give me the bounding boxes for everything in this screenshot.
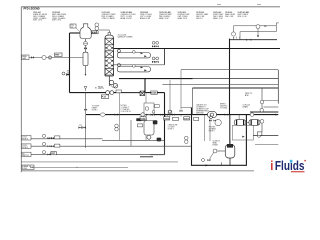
svg-text:NOTE 3: NOTE 3 — [168, 128, 174, 130]
node tag box 172.5 — [173, 117, 179, 120]
node notes box — [120, 93, 147, 141]
node E105b tag — [116, 90, 121, 93]
vessel small drum B — [249, 120, 260, 126]
wire stream2 — [31, 145, 191, 147]
stream row 1 — [22, 134, 103, 140]
svg-text:3. SLOPE 1%: 3. SLOPE 1% — [121, 111, 132, 113]
svg-text:PFD LEGEND: PFD LEGEND — [24, 8, 40, 11]
wire feed line — [29, 57, 83, 59]
wire stream4 — [34, 166, 128, 168]
valve drum drain — [208, 159, 211, 161]
node arrow on U-loop — [206, 164, 209, 166]
border zone ticks — [217, 4, 261, 6]
node NC note — [79, 124, 82, 126]
node tick marks on header x232-238 — [233, 37, 240, 39]
svg-text:HEAD: 35 M: HEAD: 35 M — [159, 17, 169, 20]
svg-text:OPER: 0.2 BARG: OPER: 0.2 BARG — [102, 17, 116, 20]
wire main vertical header x229.5 — [229, 39, 231, 115]
svg-text:PET: PET — [55, 55, 60, 57]
node title strip divider — [21, 161, 178, 163]
valve stream3 — [48, 153, 51, 155]
pump 12-PU-001A — [109, 80, 113, 84]
svg-text:DRUM: DRUM — [213, 145, 219, 147]
valve on vertical x181 — [180, 70, 182, 117]
node E105 tag box — [151, 91, 158, 94]
svg-text:SERVICE: SERVICE — [196, 113, 204, 115]
svg-text:QUENCH TOWER: QUENCH TOWER — [118, 36, 134, 38]
wire flask bottom outlet — [85, 39, 87, 53]
node vent arrow — [265, 25, 268, 27]
node tag box right — [257, 132, 262, 135]
wire drum left outlet — [217, 150, 225, 152]
node dosing pot tag (dark) — [136, 118, 141, 121]
valve group upper (motor valves) — [152, 41, 159, 47]
logo registered mark — [304, 160, 305, 161]
vessel 12-FI-001 slim filter — [83, 52, 88, 65]
valve stream1 — [48, 137, 51, 139]
svg-text:WTR R: WTR R — [22, 147, 29, 149]
node stream3 PET tag — [51, 152, 57, 155]
valve feed isolation — [31, 56, 34, 58]
valve cluster dark on header — [79, 126, 86, 129]
svg-text:AREA: 120 M2: AREA: 120 M2 — [121, 17, 132, 20]
node distributor C2 — [106, 59, 113, 63]
svg-text:101: 101 — [71, 27, 74, 29]
svg-text:CHEM DOSE: CHEM DOSE — [168, 124, 178, 126]
valve + circle x153.5 — [152, 114, 155, 116]
node tag box under line 1 — [140, 117, 146, 120]
node psv cluster — [209, 116, 221, 125]
node arrows product line — [146, 114, 153, 116]
equipment label blocks along top — [33, 11, 249, 22]
wire quench return riser — [164, 93, 166, 155]
node feed gas label box — [22, 55, 30, 60]
svg-text:ATM: ATM — [245, 94, 249, 97]
wire psv cluster stubs — [205, 115, 211, 141]
valve symbol small circle — [115, 124, 119, 128]
wire stub y112 — [250, 111, 278, 113]
exchanger 12-EX-002 hairpin lower — [117, 64, 150, 72]
packing X bed 2 — [105, 51, 114, 58]
vessel seal drum capsule — [225, 145, 235, 159]
instrument PSV vent — [256, 25, 260, 29]
wire overhead loop: vertical left riser — [69, 33, 71, 93]
instrument LI on riser — [168, 110, 172, 114]
wire drum bottom to U-loop — [229, 158, 231, 165]
node stream4 label box — [22, 165, 34, 170]
valve on drain header — [84, 109, 87, 111]
wire pumparound riser — [164, 49, 166, 65]
wire drums stubs — [239, 115, 249, 123]
instrument FT feed — [48, 56, 51, 59]
svg-text:DES: FV: DES: FV — [196, 18, 203, 20]
wire vent header y26 — [234, 26, 277, 32]
instrument circle above product line right — [260, 108, 264, 112]
instrument pair near drain riser — [185, 136, 189, 140]
valve diamond x142.7 — [140, 112, 145, 117]
wire spent caustic line y135.5 — [253, 135, 278, 137]
valve pair on product line — [165, 114, 168, 116]
node utility box verticals — [193, 88, 263, 115]
instrument on product line — [250, 113, 254, 117]
wire utility y84.6 — [162, 84, 278, 86]
instrument circle left of vessel cluster — [202, 159, 205, 162]
node text above product line — [220, 93, 253, 110]
svg-text:HEAD: 20 M: HEAD: 20 M — [178, 17, 188, 20]
svg-text:NOTE 2: NOTE 2 — [92, 110, 98, 112]
node tag box under line 2 — [164, 117, 170, 120]
instrument TI hairpin 1 — [132, 50, 135, 53]
node dark blob 2 — [157, 138, 162, 142]
valve group lower (motor valves) — [152, 57, 159, 63]
node psv note text — [209, 127, 217, 133]
pump inline 12-PU-03 — [208, 112, 217, 118]
wire drain U-loop — [192, 108, 247, 166]
wire stream1 — [31, 138, 103, 140]
svg-text:NOTE 4: NOTE 4 — [209, 130, 215, 132]
exchanger 12-EX-001 hairpin upper — [117, 49, 150, 58]
wire vertical x131 — [130, 120, 132, 146]
node drain funnel — [84, 87, 87, 92]
wire dark return stub — [144, 79, 146, 93]
control valve on left riser — [62, 71, 70, 76]
node sump box — [232, 125, 253, 140]
svg-text:Fluids: Fluids — [275, 158, 305, 173]
pump dosing — [147, 135, 151, 139]
instrument LG drum — [213, 149, 217, 153]
node small pump box — [144, 103, 154, 115]
wire stub y100.5 — [262, 100, 278, 102]
logo engineering tagline — [291, 171, 305, 172]
svg-text:HEAD: 15 M: HEAD: 15 M — [213, 17, 223, 20]
svg-text:CAP: 4 M3: CAP: 4 M3 — [225, 15, 233, 18]
vessel 12-EV-001 flask body — [80, 24, 91, 39]
node inline strainer ellipse — [100, 113, 105, 116]
node stream2 label box — [22, 144, 32, 148]
node flow arrows hairpin lower — [141, 66, 147, 71]
wire column bottom outlet — [108, 76, 110, 86]
wire vertical x170 — [169, 80, 171, 110]
svg-text:DRAIN: DRAIN — [243, 106, 249, 109]
instrument stream2 — [42, 142, 45, 145]
wire right cluster piping — [261, 123, 263, 132]
wire product run y114.6 — [86, 114, 279, 116]
wire flash gas y39.7 — [230, 39, 278, 41]
node tag box under line 3 — [184, 117, 190, 120]
wire box bottom y140.3 — [102, 139, 165, 141]
wire cooling supply y64.8 — [114, 64, 165, 66]
wire lower right line y144.7 — [255, 144, 278, 146]
valve on product line x116 — [115, 114, 118, 116]
node pump tag box — [101, 95, 109, 98]
wire vertical x85.7 drain header — [85, 93, 87, 148]
wire LG down — [210, 153, 214, 161]
node stream1 label box — [22, 136, 32, 140]
instrument stream1 — [42, 134, 45, 137]
node utility text block — [196, 104, 209, 115]
wire column overhead — [99, 30, 109, 33]
wire stub y107 — [264, 106, 279, 108]
wire header down to seal drum — [229, 115, 231, 145]
svg-text:SIZE: 1.2 M: SIZE: 1.2 M — [33, 20, 43, 22]
svg-text:TO OSBL: TO OSBL — [220, 108, 227, 110]
svg-text:E105: E105 — [151, 93, 157, 95]
pump 12-PU-001B — [113, 84, 117, 88]
wire stub y107.5 — [181, 107, 192, 109]
pump circles on quench line — [106, 91, 110, 95]
packing X bed 3 — [105, 68, 114, 75]
wire right bus vertical x278.3 — [277, 70, 279, 104]
wire stream3 — [31, 153, 165, 155]
svg-text:0.2 M3/H: 0.2 M3/H — [168, 126, 175, 128]
wire drum top stub — [229, 139, 231, 144]
node left box bottom-right corner — [150, 146, 165, 155]
wire pumparound return right y78.6 — [193, 78, 279, 80]
node tag box under diamond — [141, 118, 146, 121]
instrument LIC right edge — [260, 119, 264, 123]
node flow arrows y39 — [246, 39, 253, 41]
node flow arrows hairpin upper — [141, 52, 147, 57]
packing X bed 1 — [105, 38, 114, 45]
node stream2 tag — [55, 144, 60, 147]
svg-text:UNIT 11: UNIT 11 — [98, 88, 104, 90]
instrument stream3 — [42, 151, 45, 154]
wire vent sub-header y31.6 — [240, 32, 276, 40]
stream row 3 — [22, 151, 165, 158]
svg-text:SIZE: 0.9 M: SIZE: 0.9 M — [52, 20, 62, 22]
node distributor C1 — [106, 46, 113, 50]
instrument TI hairpin 2 — [132, 65, 135, 68]
node notes text — [121, 105, 132, 113]
wire pumparound return y78.6 — [119, 78, 193, 80]
node tick near x221 — [221, 162, 223, 165]
wire filter bottom outlet + arrow — [85, 66, 87, 74]
node text block 168 — [168, 124, 178, 130]
valve x161.5 — [160, 114, 163, 116]
svg-text:TO SUMP: TO SUMP — [92, 106, 99, 108]
vessel dosing pot — [144, 121, 154, 136]
wire vent stub up — [276, 23, 279, 32]
wire pumparound draw line y48.5 — [114, 48, 281, 50]
valve stream4 — [31, 166, 34, 168]
svg-text:WTR S: WTR S — [22, 139, 29, 141]
node column top nozzle — [108, 33, 111, 36]
wire box top y88 — [193, 87, 279, 89]
sheet border — [21, 7, 280, 173]
svg-text:SUPPLY: SUPPLY — [22, 155, 30, 157]
node tag box 193.7 — [194, 117, 199, 120]
wire instrument lead — [91, 30, 97, 33]
instrument circle on stub y104 — [260, 100, 264, 104]
node stream1 tag — [55, 136, 60, 139]
wire PSV outlet stem — [257, 29, 259, 37]
stream row 2 — [22, 142, 192, 149]
node distributor C3 — [106, 63, 113, 67]
stream row 4 — [22, 165, 128, 170]
node E103 tag box — [92, 31, 99, 34]
svg-text:i: i — [270, 158, 273, 173]
valve stream2 — [48, 145, 51, 147]
svg-text:SIZE: 0.5 M: SIZE: 0.5 M — [238, 16, 248, 18]
wire pump suction bottom run — [70, 92, 165, 94]
node PET tag box — [55, 53, 63, 57]
node dark row3 stub — [140, 156, 153, 158]
node product arrow end — [275, 114, 278, 116]
wire cooling return y69.7 — [181, 69, 278, 71]
node seal drum top box — [227, 144, 233, 148]
wire stream3 riser x164.5 — [164, 140, 166, 154]
node dark pump blob — [153, 120, 158, 124]
node drum text — [213, 141, 220, 147]
instrument circle on y134.75 — [257, 134, 261, 138]
valve flask outlet — [84, 47, 87, 49]
vessel column shell — [105, 35, 114, 76]
instrument FI feed — [42, 55, 46, 59]
wire overhead loop top run into flask — [70, 32, 81, 34]
wire PCV to header — [233, 37, 235, 40]
valve spectacle blind on suction — [140, 91, 145, 96]
valve on product line x226 — [225, 114, 228, 116]
instrument stack PI/TI top — [95, 23, 99, 27]
instrument LG flask — [84, 42, 88, 46]
node stream3 label box — [22, 152, 32, 156]
svg-text:PSV SET: PSV SET — [209, 127, 216, 129]
node PSV tag with leader — [70, 24, 76, 28]
instrument PCV vent — [231, 32, 235, 36]
node text near drain header — [92, 106, 99, 112]
svg-text:AREA: 60 M2: AREA: 60 M2 — [140, 17, 150, 20]
node tag box x137.5 — [138, 124, 143, 127]
vessel small drum A — [234, 120, 246, 126]
logo cyan dot on i of Fluids — [290, 160, 293, 163]
